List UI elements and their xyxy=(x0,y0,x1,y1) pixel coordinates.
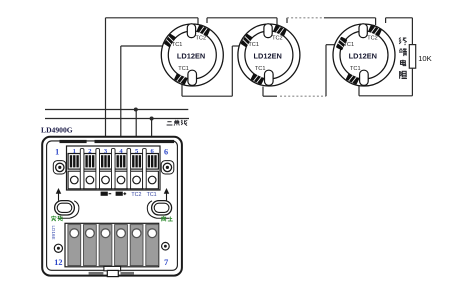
svg-text:7: 7 xyxy=(164,258,168,267)
svg-text:TC1: TC1 xyxy=(344,42,355,48)
svg-text:LD12EN: LD12EN xyxy=(349,51,377,60)
svg-text:LD12EN: LD12EN xyxy=(177,51,205,60)
svg-text:TC1: TC1 xyxy=(255,66,266,72)
svg-text:TC2: TC2 xyxy=(131,192,141,198)
svg-text:TC1: TC1 xyxy=(178,66,189,72)
svg-text:TC1: TC1 xyxy=(350,66,361,72)
svg-text:6: 6 xyxy=(164,147,168,156)
svg-text:TC1: TC1 xyxy=(147,192,157,198)
svg-text:TC1: TC1 xyxy=(172,42,183,48)
svg-text:LD4900G: LD4900G xyxy=(41,125,73,134)
svg-text:LD12EN: LD12EN xyxy=(254,51,282,60)
svg-text:1: 1 xyxy=(73,148,76,155)
svg-text:10K: 10K xyxy=(418,54,432,63)
svg-text:TC2: TC2 xyxy=(367,36,378,42)
svg-text:TC2: TC2 xyxy=(272,36,283,42)
svg-text:LD16E: LD16E xyxy=(51,226,56,240)
svg-text:TC1: TC1 xyxy=(248,42,259,48)
svg-text:TC2: TC2 xyxy=(196,36,207,42)
svg-text:12: 12 xyxy=(54,258,62,267)
svg-text:1: 1 xyxy=(55,147,59,156)
